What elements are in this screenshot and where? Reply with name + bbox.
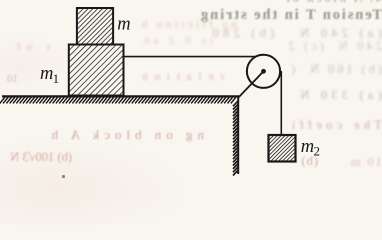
svg-text:1: 1: [53, 71, 60, 86]
svg-text:m: m: [40, 64, 53, 84]
svg-text:2: 2: [314, 144, 321, 159]
svg-text:m: m: [301, 137, 314, 157]
svg-text:m: m: [117, 14, 130, 34]
